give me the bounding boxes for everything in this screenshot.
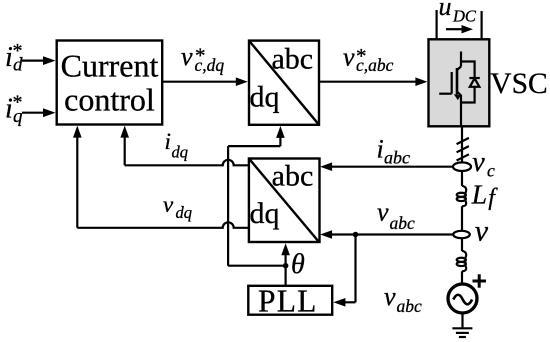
svg-text:DC: DC [452, 7, 477, 26]
svg-text:i: i [377, 135, 384, 164]
svg-text:dq: dq [172, 143, 189, 162]
svg-text:f: f [488, 185, 498, 211]
svg-text:v: v [472, 147, 485, 178]
svg-text:q: q [13, 106, 23, 127]
svg-text:abc: abc [384, 148, 410, 168]
svg-text:i: i [165, 129, 171, 154]
svg-text:control: control [64, 81, 155, 117]
svg-text:v: v [343, 43, 355, 72]
svg-text:v: v [181, 42, 193, 71]
svg-text:Current: Current [61, 48, 159, 84]
svg-text:v: v [475, 215, 489, 248]
svg-text:dq: dq [250, 81, 280, 114]
svg-text:abc: abc [397, 296, 423, 316]
svg-text:v: v [377, 198, 389, 227]
svg-text:PLL: PLL [258, 283, 318, 318]
svg-text:v: v [384, 282, 396, 311]
svg-text:dq: dq [250, 197, 280, 230]
svg-text:u: u [439, 0, 452, 21]
svg-text:L: L [471, 179, 487, 210]
svg-text:d: d [13, 55, 23, 76]
svg-text:v: v [163, 192, 174, 217]
svg-text:c: c [487, 161, 495, 181]
svg-text:dq: dq [176, 203, 193, 222]
svg-text:c,dq: c,dq [195, 55, 225, 75]
svg-text:VSC: VSC [490, 68, 547, 100]
svg-text:abc: abc [390, 213, 416, 233]
svg-text:abc: abc [272, 160, 314, 193]
svg-text:abc: abc [271, 43, 313, 76]
svg-text:θ: θ [291, 249, 305, 280]
svg-text:c,abc: c,abc [356, 55, 394, 75]
